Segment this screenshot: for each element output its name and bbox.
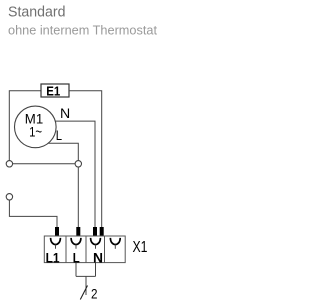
wire: terminal N bottom stub xyxy=(95,263,97,277)
connector circle (on L wire) xyxy=(75,161,81,167)
terminal block divider 1 xyxy=(65,236,67,263)
terminal cup spare xyxy=(110,238,120,245)
svg-text:ohne internem Thermostat: ohne internem Thermostat xyxy=(8,23,157,38)
terminal cup L1 stub xyxy=(55,245,57,249)
wire: lower-left connector to terminal L1 xyxy=(9,200,57,227)
wire: L wire continues to terminal L xyxy=(77,167,79,227)
terminal block divider 3 xyxy=(104,236,106,263)
terminal cup L xyxy=(71,238,81,245)
svg-text:X1: X1 xyxy=(133,239,148,256)
terminal block X1 outline xyxy=(44,236,125,263)
terminal cup N stub xyxy=(95,245,97,249)
terminal block divider 2 xyxy=(85,236,87,263)
wire end blob at terminal L xyxy=(76,227,80,236)
svg-text:L: L xyxy=(56,128,63,143)
cable slash (2 conductors) xyxy=(80,286,87,300)
terminal cup L1 xyxy=(51,238,61,245)
wire: left vertical + top horizontal to E1 xyxy=(9,91,41,161)
wire end blob at terminal N (E1) xyxy=(100,227,104,236)
svg-text:N: N xyxy=(60,106,70,121)
svg-text:Standard: Standard xyxy=(8,4,66,21)
wire: supply cable xyxy=(85,276,87,295)
wire: motor N output to terminal N xyxy=(55,121,95,227)
wire: E1 to terminal N (right vertical) xyxy=(69,91,102,227)
wire end blob at terminal N (motor) xyxy=(93,227,97,236)
connector circle (left, on switch line) xyxy=(6,161,12,167)
svg-text:E1: E1 xyxy=(46,84,60,99)
wire: bottom joining bar xyxy=(76,275,96,277)
svg-text:2: 2 xyxy=(91,286,98,300)
terminal cup spare stub xyxy=(114,245,116,249)
wire: terminal L bottom stub xyxy=(75,263,77,277)
wire: horizontal link between connectors xyxy=(13,163,75,165)
motor M1 circle xyxy=(15,106,57,148)
wire: motor L output down to connector xyxy=(48,143,78,160)
svg-text:N: N xyxy=(93,250,103,266)
svg-text:L1: L1 xyxy=(46,250,60,266)
terminal cup N xyxy=(91,238,101,245)
svg-text:1~: 1~ xyxy=(29,124,42,139)
wire end blob at terminal L1 xyxy=(55,227,59,236)
connector circle (lower left) xyxy=(6,194,12,200)
heating element E1 box xyxy=(41,84,69,97)
terminal cup L stub xyxy=(75,245,77,249)
